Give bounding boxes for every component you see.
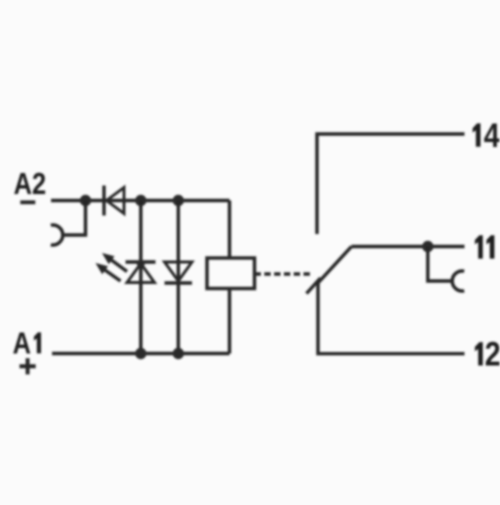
wire terminal 12 <box>318 282 465 354</box>
LED cathode bar <box>126 260 156 263</box>
svg-text:A: A <box>13 326 31 361</box>
LED arrow 1 <box>102 253 127 272</box>
wire arm to 11 <box>352 245 465 248</box>
terminal label A1 <box>13 326 41 361</box>
svg-text:2: 2 <box>485 335 500 373</box>
wire freewheel branch vertical <box>177 201 180 354</box>
node LED apex <box>137 260 145 268</box>
wire clamp branch 11 <box>428 247 453 282</box>
wire terminal 14 <box>317 134 465 234</box>
terminal label 11 <box>475 235 495 258</box>
node top LED branch <box>135 195 146 206</box>
freewheel diode triangle <box>165 262 193 281</box>
svg-text:4: 4 <box>484 116 500 154</box>
terminal label 14 <box>473 116 500 154</box>
freewheel diode bar (cathode) <box>165 281 193 284</box>
terminal label 12 <box>475 335 500 373</box>
contact arm <box>317 247 352 285</box>
contact seat slash <box>307 278 321 294</box>
dashed actuator link <box>255 272 312 275</box>
LED arrow 2 <box>96 263 121 281</box>
diode D1 bar (cathode) <box>102 186 105 216</box>
wire coil drop <box>228 201 231 259</box>
clamp connector A2 <box>51 225 63 245</box>
clamp connector 11 <box>452 271 464 291</box>
minus polarity mark <box>20 200 35 204</box>
LED triangle <box>127 264 155 283</box>
svg-text:A2: A2 <box>14 166 46 201</box>
node A2-junction <box>80 195 91 206</box>
plus polarity mark <box>20 358 36 374</box>
wire clamp branch A2 <box>62 201 86 236</box>
diode D1 triangle <box>107 188 125 214</box>
node top diode branch <box>173 195 184 206</box>
wire coil to bottom rail <box>228 289 231 354</box>
node bottom LED branch <box>135 348 146 359</box>
node 11 junction <box>422 241 433 252</box>
node bottom diode branch <box>173 348 184 359</box>
wire A2 rail <box>51 199 230 202</box>
relay coil K1 <box>207 258 255 289</box>
terminal label A2 <box>14 166 46 201</box>
wire LED branch vertical <box>139 201 142 354</box>
wire A1 rail <box>52 352 230 355</box>
